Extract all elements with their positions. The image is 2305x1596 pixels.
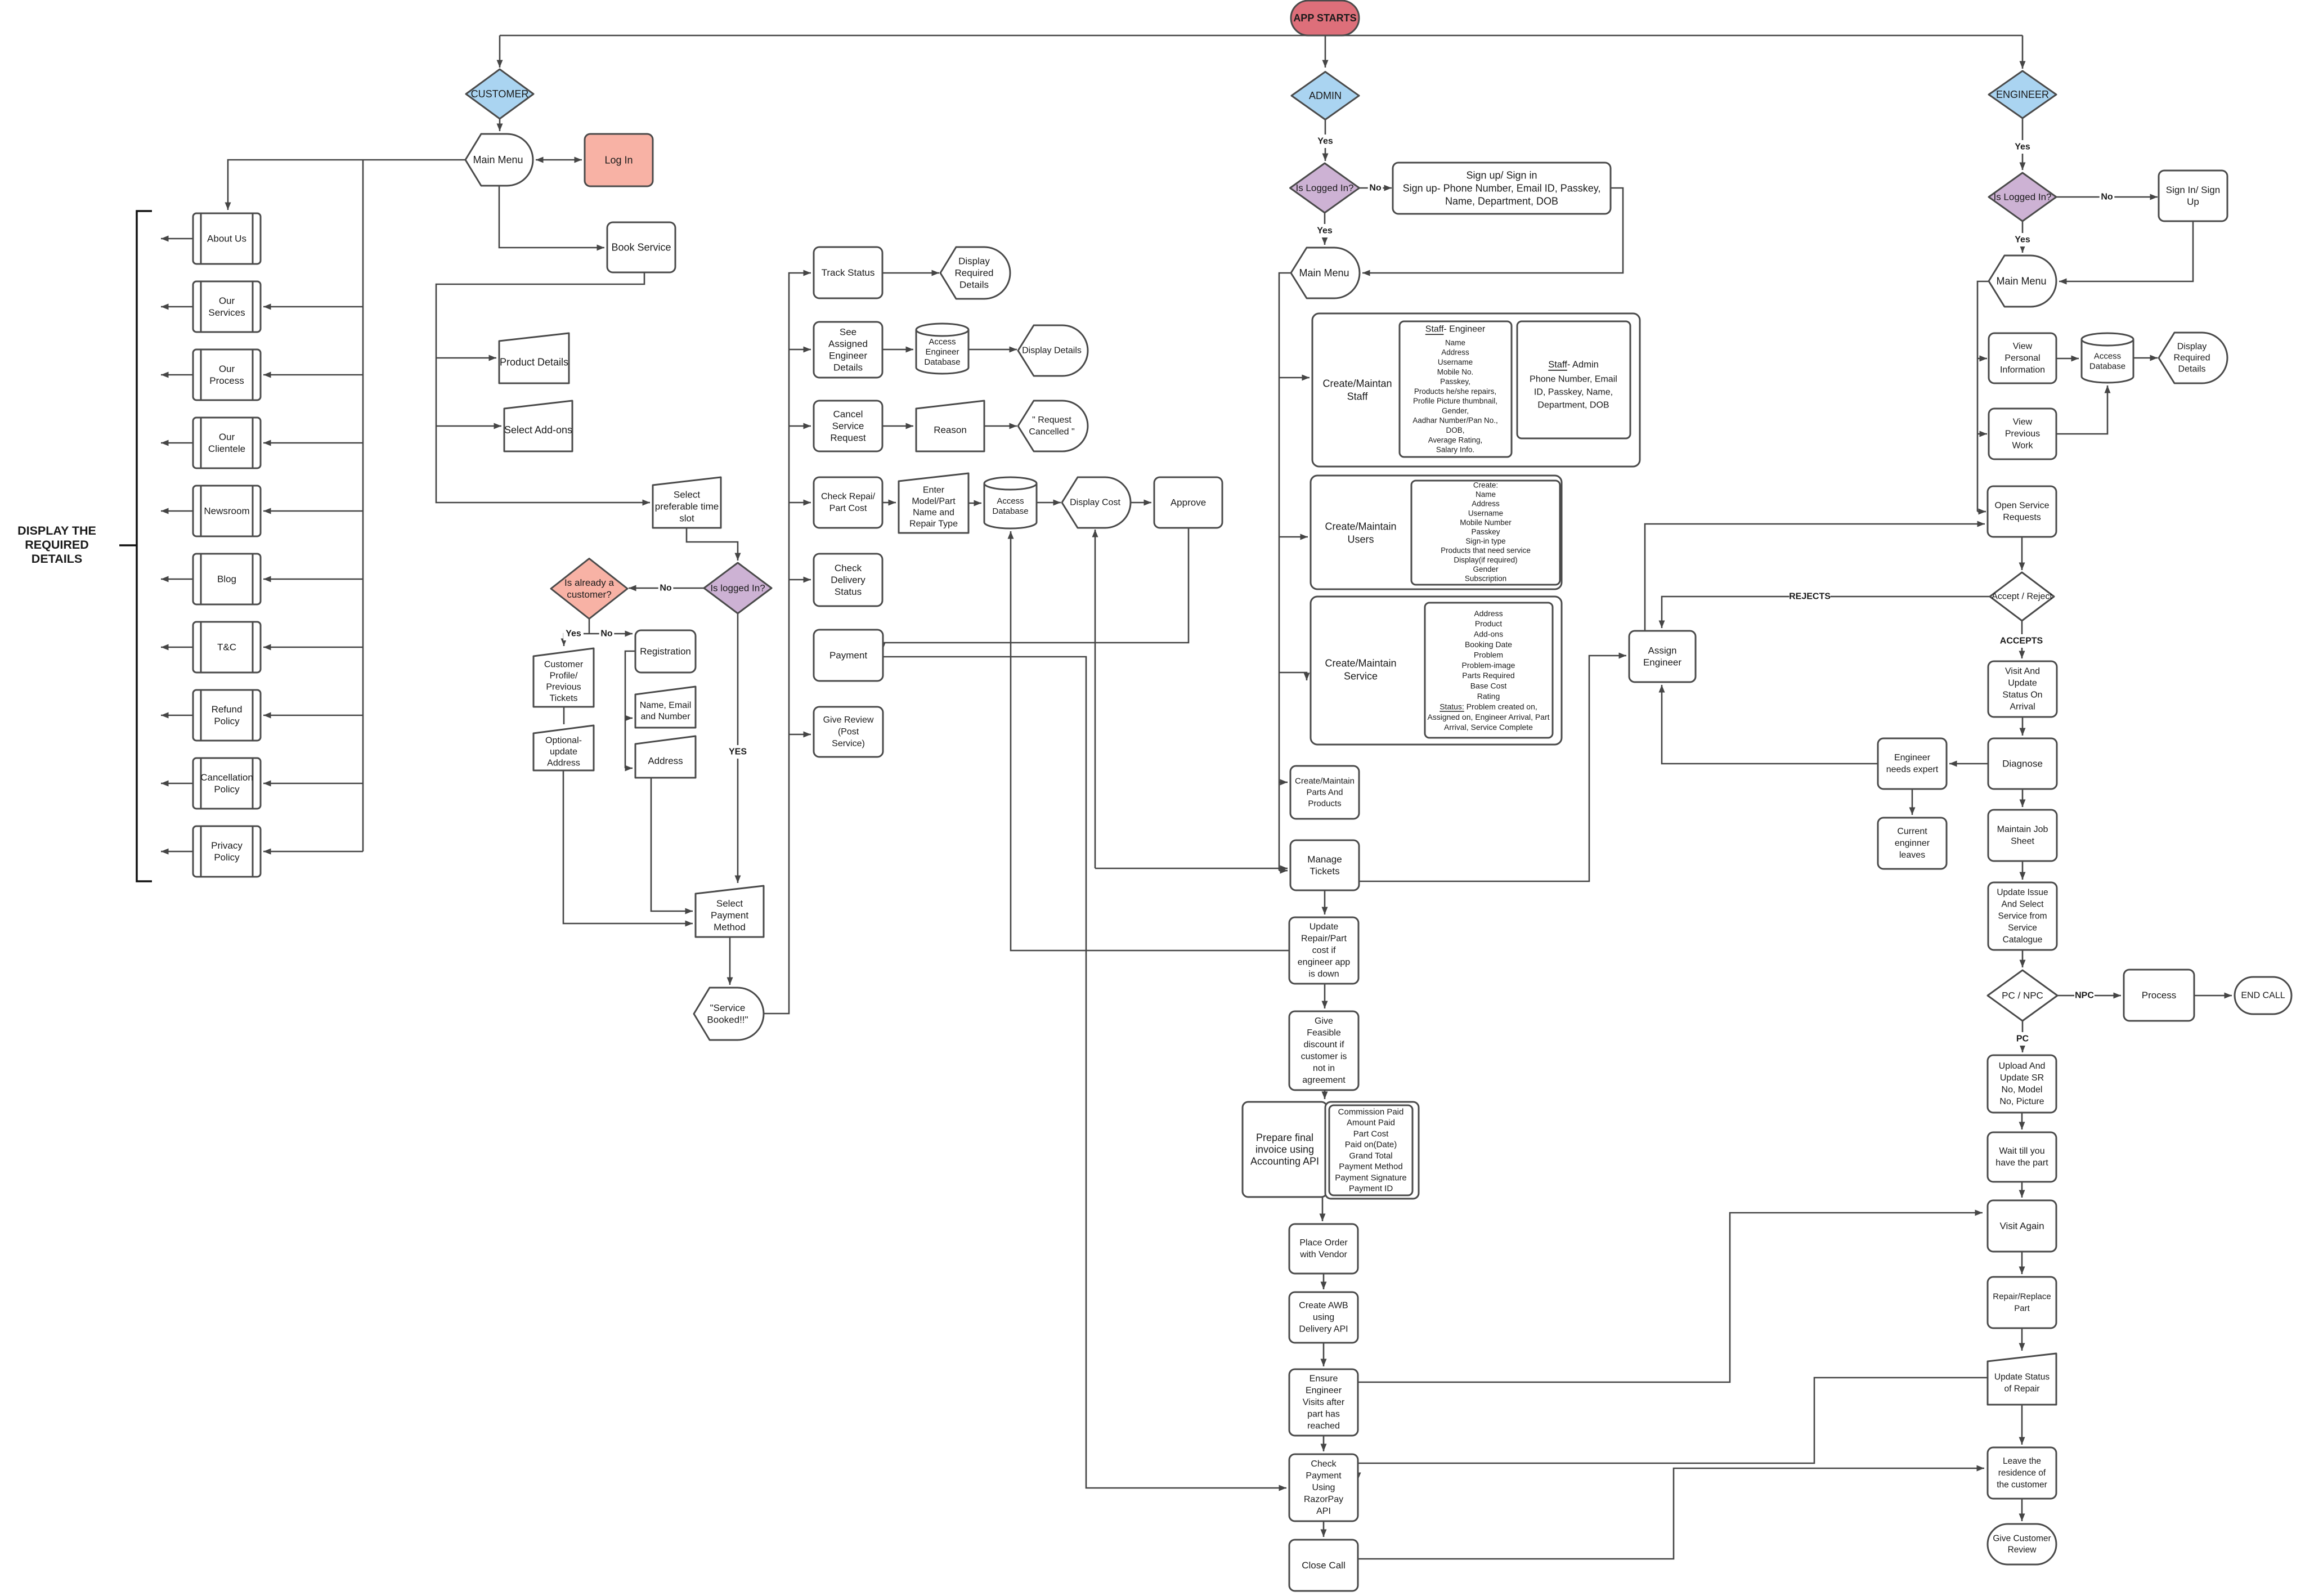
wire actions trunk to Check Delivery Status: [789, 579, 811, 581]
svg-text:Yes: Yes: [1317, 226, 1333, 236]
process Visit Again: [1988, 1200, 2056, 1252]
wire Visit Again to Repair/Replace Part: [2021, 1252, 2023, 1274]
wire Update Repair cost to Access Database: [1011, 531, 1289, 951]
process Open Service Requests: [1988, 486, 2056, 537]
wire Newsroom display out: [161, 510, 193, 512]
wire Check Payment to Close Call: [1323, 1521, 1325, 1537]
label Create/Maintan Staff: [1322, 378, 1392, 402]
manual-input Select Add-ons: [504, 401, 572, 451]
svg-text:Yes: Yes: [2015, 142, 2030, 152]
svg-text:Prepare finalinvoice usingAcco: Prepare finalinvoice usingAccounting API: [1250, 1132, 1319, 1167]
wire Close Call to Leave the residence: [1358, 1468, 1984, 1559]
database Access Database customer: [984, 477, 1037, 528]
display Main Menu engineer: [1989, 255, 2056, 307]
wire Privacy Policy display out: [161, 851, 193, 853]
wire admin menu trunk: [1279, 273, 1291, 871]
wire Check Repai to Enter Model/Part: [882, 502, 896, 504]
svg-text:Select Add-ons: Select Add-ons: [504, 424, 572, 436]
wire trunk to Blog: [263, 579, 363, 580]
svg-text:REJECTS: REJECTS: [1789, 592, 1831, 602]
svg-text:T&C: T&C: [217, 642, 236, 653]
wire View Personal Information to Access Database eng: [2056, 358, 2079, 360]
wire Diagnose to Maintain Job Sheet: [2022, 789, 2024, 807]
process Wait till you have the part: [1988, 1132, 2056, 1182]
wire APP STARTS to ADMIN: [1325, 35, 1326, 68]
wire Upload to Wait till part: [2021, 1113, 2023, 1129]
svg-text:Update IssueAnd SelectService: Update IssueAnd SelectService fromServic…: [1997, 888, 2048, 945]
wire Repair/Replace Part to Update Status of Repair: [2021, 1328, 2023, 1351]
label REJECTS: [1789, 590, 1831, 603]
process Current enginner leaves: [1878, 818, 1947, 869]
label DISPLAY THE REQUIRED DETAILS: [17, 524, 96, 566]
predefined-process Our Services: [193, 281, 261, 332]
display Service Booked: [694, 988, 764, 1040]
wire Engineer needs expert to Current enginner leaves: [1912, 789, 1913, 815]
process Registration: [635, 630, 696, 673]
wire Our Process display out: [161, 374, 193, 376]
process Manage Tickets: [1290, 840, 1359, 890]
manual-input Product Details: [499, 333, 569, 383]
display Main Menu admin: [1291, 248, 1360, 298]
svg-text:PC / NPC: PC / NPC: [2002, 990, 2043, 1001]
wire Open Service Requests to Accept/Reject: [2021, 537, 2023, 570]
manual-input Customer Profile/Previous Tickets: [533, 648, 594, 707]
wire Customer Profile to Optional-update Address: [563, 707, 565, 724]
svg-text:Main Menu: Main Menu: [1299, 267, 1349, 279]
svg-text:CheckDeliveryStatus: CheckDeliveryStatus: [831, 563, 866, 597]
manual-input Select Payment Method: [696, 886, 764, 937]
wire Manage Tickets to Update Repair cost: [1324, 890, 1326, 914]
svg-text:Staff- Admin: Staff- Admin: [1548, 360, 1599, 370]
wire Payment to Check Payment RazorPay: [883, 657, 1286, 1488]
wire Blog display out: [161, 579, 193, 580]
label ACCEPTS: [2000, 634, 2043, 648]
svg-text:Yes: Yes: [2015, 235, 2030, 245]
svg-text:Yes: Yes: [1317, 137, 1333, 146]
svg-text:No: No: [2101, 192, 2113, 202]
svg-text:Address: Address: [648, 756, 683, 766]
wire top rail to CUSTOMER: [499, 35, 501, 68]
note Invoice fields group: [1325, 1102, 1419, 1199]
predefined-process Our Process: [193, 349, 261, 400]
svg-text:ENGINEER: ENGINEER: [1996, 89, 2049, 100]
label Invoice attribute list: [1335, 1107, 1407, 1193]
predefined-process T&C: [193, 622, 261, 673]
predefined-process Refund Policy: [193, 690, 261, 741]
process Check Payment Using RazorPay API: [1289, 1454, 1358, 1521]
svg-text:END CALL: END CALL: [2241, 991, 2285, 1001]
wire time slot to Is logged In: [687, 528, 738, 561]
predefined-process Cancellation Policy: [193, 758, 261, 809]
wire Access Database eng to Display Required Details eng: [2133, 357, 2158, 359]
wire Registration connector: [625, 651, 635, 768]
process Log In: [585, 134, 653, 186]
svg-text:Is logged In?: Is logged In?: [710, 583, 765, 594]
label Staff- Engineer attribute list: [1412, 325, 1498, 454]
label No (admin logged): [1368, 181, 1383, 195]
wire Accept/Reject ACCEPTS to Visit And Update: [2021, 621, 2023, 658]
svg-text:DisplayRequiredDetails: DisplayRequiredDetails: [2174, 342, 2210, 374]
process Give Review (Post Service): [814, 707, 883, 757]
wire Is Logged In Yes to Main Menu admin: [1324, 213, 1326, 245]
wire trunk to Cancellation Policy: [263, 783, 363, 784]
process Visit And Update Status On Arrival: [1988, 661, 2057, 717]
wire customer info trunk: [362, 160, 364, 851]
wire Leave the residence to Give Customer Review: [2021, 1499, 2023, 1521]
wire Update Status of Repair to Check Payment: [1358, 1378, 1988, 1480]
svg-text:Product Details: Product Details: [500, 357, 568, 368]
process Create AWB using Delivery API: [1289, 1292, 1358, 1343]
svg-text:YES: YES: [729, 747, 747, 757]
process Assign Engineer: [1629, 631, 1696, 682]
wire Is logged In YES to Select Payment Method: [737, 613, 739, 883]
manual-input Reason: [916, 401, 984, 451]
svg-text:ACCEPTS: ACCEPTS: [2000, 636, 2043, 646]
svg-text:CUSTOMER: CUSTOMER: [471, 88, 529, 100]
process View Personal Information: [1989, 333, 2056, 383]
process Check Repai/Part Cost: [814, 477, 882, 528]
wire Address to Select Payment Method: [651, 778, 693, 911]
terminator END CALL: [2235, 977, 2291, 1014]
wire split Yes to Customer Profile: [564, 634, 589, 646]
label Yes (admin logged): [1315, 224, 1335, 237]
label Service attribute list: [1427, 609, 1549, 732]
wire Book Service to booking trunk: [436, 272, 650, 503]
wire connector to Name Email and Number: [625, 718, 633, 719]
bracket display details bracket: [137, 211, 152, 881]
wire ADMIN to Is Logged In: [1325, 119, 1326, 161]
wire trunk to Create/Maintain Parts: [1279, 782, 1288, 783]
svg-text:DisplayRequiredDetails: DisplayRequiredDetails: [955, 256, 994, 290]
process Update Issue And Select Service from Service Catalogue: [1988, 882, 2057, 950]
wire Process to END CALL: [2194, 995, 2232, 997]
wire Cancellation Policy display out: [161, 783, 193, 784]
svg-text:Close Call: Close Call: [1302, 1560, 1345, 1571]
wire Enter Model/Part to Access Database: [968, 503, 981, 504]
predefined-process Our Clientele: [193, 418, 261, 468]
wire Place Order to Create AWB: [1323, 1274, 1325, 1289]
wire engineer menu trunk: [1977, 281, 1989, 512]
svg-text:Diagnose: Diagnose: [2002, 759, 2043, 769]
wire Give Feasible discount to Prepare final invoice: [1324, 1090, 1326, 1099]
decision Is Logged In? engineer: [1989, 173, 2056, 221]
process See Assigned Engineer Details: [814, 322, 882, 378]
wire trunk to Create/Maintain Users: [1279, 536, 1308, 538]
label Create/Maintain Users: [1325, 521, 1396, 545]
process Approve: [1154, 477, 1222, 528]
database Access Database engineer: [2082, 333, 2133, 383]
process Cancel Service Request: [814, 401, 882, 451]
wire trunk to View Personal Information: [1977, 358, 1987, 360]
label Staff- Admin attribute list: [1530, 360, 1617, 410]
svg-text:Registration: Registration: [640, 646, 691, 657]
note Invoice fields inner: [1329, 1105, 1412, 1195]
svg-text:Reason: Reason: [934, 425, 967, 436]
svg-text:About Us: About Us: [207, 234, 246, 244]
process Diagnose: [1988, 738, 2057, 789]
wire Refund Policy display out: [161, 715, 193, 716]
label No (already customer): [599, 627, 615, 640]
wire Optional-update Address to Select Payment Method: [563, 770, 693, 923]
manual-input Enter Model/Part Name and Repair Type: [899, 473, 968, 533]
wire Cancel Service Request to Reason: [882, 425, 913, 427]
wire trunk to View Previous Work: [1977, 433, 1987, 435]
process Sign In/Sign Up: [2159, 171, 2227, 221]
process Check Delivery Status: [814, 554, 882, 606]
wire booking trunk to Product Details: [436, 357, 496, 359]
wire Is Logged In No to Sign up: [1359, 187, 1392, 189]
wire Update Repair cost to Give Feasible discount: [1324, 984, 1326, 1008]
wire Our Clientele display out: [161, 442, 193, 444]
wire trunk to Our Services: [263, 306, 363, 308]
wire PC/NPC PC to Upload And Update SR: [2022, 1021, 2024, 1052]
process Prepare final invoice using Accounting API: [1243, 1102, 1327, 1197]
wire Display Cost to Approve: [1131, 502, 1151, 504]
group Create/Maintain Service group: [1311, 597, 1562, 745]
wire Engineer needs expert to Assign Engineer: [1662, 685, 1878, 764]
label Yes (already customer): [563, 627, 584, 640]
predefined-process Newsroom: [193, 486, 261, 536]
note Staff- Admin attributes: [1517, 321, 1630, 438]
decision Is already a customer?: [551, 559, 627, 619]
wire trunk to Create/Maintan Staff: [1279, 377, 1310, 379]
wire Display Cost link to Manage Tickets: [1095, 868, 1288, 869]
wire Update Issue to PC/NPC: [2022, 950, 2024, 967]
decision PC / NPC: [1988, 970, 2057, 1021]
wire trunk to Open Service Requests: [1977, 511, 1986, 513]
svg-text:Phone Number, EmailID, Passkey: Phone Number, EmailID, Passkey, Name,Dep…: [1530, 375, 1617, 410]
process Sign up/Sign in: [1393, 163, 1611, 214]
terminator APP STARTS: [1291, 1, 1359, 35]
wire trunk to Our Clientele: [263, 442, 363, 444]
svg-text:No: No: [600, 629, 613, 639]
wire Is logged In No to Is already a customer: [629, 588, 704, 589]
wire Select Payment Method to Service Booked: [729, 937, 731, 985]
process Repair/Replace Part: [1988, 1277, 2056, 1328]
svg-text:AccessDatabase: AccessDatabase: [992, 496, 1028, 516]
database Access Engineer Database: [916, 324, 968, 374]
wire Assign Engineer to Open Service Requests: [1645, 524, 1985, 631]
svg-text:Leave theresidence ofthe custo: Leave theresidence ofthe customer: [1997, 1456, 2047, 1490]
decision CUSTOMER: [466, 69, 533, 119]
process Place Order with Vendor: [1289, 1224, 1358, 1274]
label Yes (engineer logged): [2012, 233, 2033, 246]
label Yes (ENGINEER): [2012, 140, 2033, 154]
decision Is Logged In? admin: [1290, 163, 1360, 213]
predefined-process About Us: [193, 213, 261, 264]
wire trunk to Our Process: [263, 374, 363, 376]
note Staff- Engineer attributes: [1400, 321, 1512, 457]
predefined-process Privacy Policy: [193, 826, 261, 877]
wire View Previous Work to Access Database eng: [2056, 385, 2107, 434]
wire Reason to Request Cancelled: [984, 425, 1017, 427]
svg-text:Optional-updateAddress: Optional-updateAddress: [545, 736, 582, 768]
svg-text:Payment: Payment: [829, 650, 867, 661]
wire top rail from CUSTOMER to ENGINEER: [500, 35, 2023, 37]
wire split No to Registration: [589, 633, 633, 635]
wire trunk to Refund Policy: [263, 715, 363, 716]
display Display Required Details customer: [940, 247, 1010, 299]
wire Is Logged In eng Yes to Main Menu eng: [2022, 221, 2024, 253]
svg-text:Log In: Log In: [604, 155, 633, 166]
wire Visit And Update to Diagnose: [2022, 717, 2024, 736]
wire Manage Tickets link to Display Cost: [1095, 530, 1096, 868]
wire Approve to Payment: [882, 528, 1189, 651]
wire Accept/Reject REJECTS to Assign Engineer: [1662, 597, 1990, 628]
wire Is already split: [589, 619, 590, 634]
svg-text:Currentenginnerleaves: Currentenginnerleaves: [1895, 827, 1930, 860]
svg-text:Main Menu: Main Menu: [1996, 276, 2046, 287]
wire Prepare final invoice to Place Order: [1322, 1197, 1324, 1221]
wire booking trunk to Select Add-ons: [436, 425, 501, 427]
wire Service Booked to actions trunk: [764, 273, 811, 1014]
process Engineer needs expert: [1878, 738, 1947, 789]
wire top rail to ENGINEER: [2022, 35, 2024, 69]
wire T&C display out: [161, 647, 193, 648]
label No (engineer logged): [2100, 190, 2115, 204]
label Users attribute list: [1441, 481, 1531, 583]
process Close Call: [1289, 1540, 1358, 1591]
manual-input Name, Email and Number: [635, 687, 696, 728]
terminator Give Customer Review: [1988, 1524, 2056, 1564]
label Yes (ADMIN): [1315, 135, 1335, 148]
process Ensure Engineer Visits after part has reached: [1289, 1369, 1358, 1436]
decision ENGINEER: [1989, 71, 2056, 118]
wire connector to Address: [625, 768, 633, 769]
wire actions trunk to Check Repai/Part Cost: [789, 502, 811, 504]
wire PC/NPC NPC to Process: [2057, 995, 2121, 997]
svg-text:Staff- Engineer: Staff- Engineer: [1425, 325, 1486, 334]
wire Diagnose to Engineer needs expert: [1949, 763, 1988, 765]
svg-text:ADMIN: ADMIN: [1309, 90, 1342, 101]
manual-input Optional-update Address: [533, 725, 594, 770]
decision ADMIN: [1291, 72, 1359, 120]
wire actions trunk to See Assigned Engineer Details: [789, 349, 811, 351]
svg-text:Visit Again: Visit Again: [1999, 1221, 2044, 1231]
process Upload And Update SR No, Model No, Picture: [1988, 1055, 2056, 1113]
wire Update Status of Repair to Leave the residence: [2021, 1405, 2023, 1445]
label NPC: [2074, 989, 2095, 1002]
manual-input Update Status of Repair: [1988, 1353, 2056, 1405]
wire Track Status to Display Required Details: [882, 272, 939, 274]
process Maintain Job Sheet: [1988, 810, 2057, 861]
process Update Repair/Part cost if engineer app is down: [1289, 917, 1358, 984]
wire trunk to Privacy Policy: [263, 851, 363, 853]
svg-text:Display Cost: Display Cost: [1070, 498, 1120, 508]
decision Is logged In?: [704, 563, 772, 613]
process Create/Maintain Parts And Products: [1290, 766, 1359, 819]
wire Wait till part to Visit Again: [2021, 1182, 2023, 1198]
svg-text:Approve: Approve: [1171, 497, 1206, 508]
svg-text:NPC: NPC: [2075, 991, 2094, 1001]
wire trunk to Create/Maintain Service: [1279, 673, 1307, 680]
svg-text:APP STARTS: APP STARTS: [1293, 12, 1356, 24]
label PC: [2015, 1032, 2030, 1046]
wire trunk to Newsroom: [263, 510, 363, 512]
wire Create AWB to Ensure Engineer Visits: [1323, 1343, 1325, 1366]
svg-text:Accept / Reject: Accept / Reject: [1992, 592, 2052, 602]
wire CUSTOMER to Main Menu: [499, 119, 501, 131]
wire ENGINEER to Is Logged In eng: [2022, 118, 2024, 170]
wire Ensure Engineer Visits to Visit Again: [1358, 1213, 1983, 1382]
process View Previous Work: [1989, 409, 2056, 459]
wire Access Database to Display Cost: [1037, 502, 1061, 504]
process Book Service: [607, 222, 675, 272]
wire About Us display out: [161, 238, 193, 240]
display Display Cost: [1062, 477, 1131, 528]
wire Access Engineer Database to Display Details: [968, 349, 1017, 351]
svg-text:Yes: Yes: [566, 629, 581, 639]
svg-text:Main Menu: Main Menu: [473, 154, 523, 165]
decision Accept / Reject: [1990, 572, 2054, 621]
svg-text:Is Logged In?: Is Logged In?: [1295, 183, 1353, 194]
group Create/Maintain Users group: [1311, 476, 1562, 589]
wire Our Services display out: [161, 306, 193, 308]
display Request Cancelled: [1018, 401, 1088, 451]
label No (customer logged): [658, 581, 674, 595]
wire See Assigned to Access Engineer Database: [882, 349, 913, 351]
label Create/Maintain Service: [1325, 658, 1396, 682]
wire Ensure Engineer Visits to Check Payment: [1323, 1436, 1325, 1451]
wire Main Menu to Log In (both ways): [536, 159, 582, 161]
wire Sign In/Sign Up to Main Menu eng: [2059, 221, 2193, 281]
svg-text:Is Logged In?: Is Logged In?: [1993, 192, 2051, 203]
svg-text:AccessDatabase: AccessDatabase: [2089, 352, 2125, 371]
wire trunk to Manage Tickets: [1279, 870, 1288, 872]
svg-text:AccessEngineerDatabase: AccessEngineerDatabase: [924, 337, 960, 367]
wire actions trunk to Give Review: [789, 734, 811, 736]
wire Main Menu to About Us: [228, 160, 465, 210]
svg-text:Blog: Blog: [217, 574, 236, 585]
predefined-process Blog: [193, 554, 261, 604]
display Display Details: [1018, 325, 1088, 376]
svg-text:Process: Process: [2142, 990, 2176, 1001]
svg-text:CancelServiceRequest: CancelServiceRequest: [830, 409, 866, 443]
wire Manage Tickets to Assign Engineer: [1359, 656, 1626, 881]
process Track Status: [814, 247, 882, 298]
svg-text:PC: PC: [2016, 1034, 2029, 1044]
display Main Menu customer: [465, 134, 533, 186]
process Give Feasible discount if customer is not in agreement: [1289, 1011, 1358, 1090]
note Users attributes: [1411, 481, 1560, 585]
wire Main Menu to Book Service: [499, 186, 604, 248]
wire Sign up to Main Menu admin: [1362, 188, 1623, 273]
svg-text:Track Status: Track Status: [822, 267, 875, 278]
svg-text:Newsroom: Newsroom: [204, 506, 249, 517]
svg-text:No: No: [660, 584, 672, 593]
svg-text:No: No: [1369, 183, 1382, 193]
wire Maintain Job Sheet to Update Issue: [2022, 861, 2024, 880]
note Service attributes: [1425, 603, 1553, 738]
svg-text:Book Service: Book Service: [611, 242, 671, 253]
process Leave the residence of the customer: [1988, 1447, 2056, 1499]
display Display Required Details engineer: [2159, 333, 2227, 383]
label YES (customer logged): [728, 745, 748, 759]
process Process: [2124, 970, 2194, 1021]
manual-input Select preferable time slot: [653, 477, 721, 528]
wire trunk to T&C: [263, 647, 363, 648]
wire actions trunk to Cancel Service Request: [789, 425, 811, 427]
group Create/Maintan Staff group: [1312, 313, 1640, 467]
manual-input Address: [635, 736, 696, 778]
process Payment: [814, 630, 883, 681]
svg-text:Display Details: Display Details: [1022, 346, 1082, 356]
wire Is Logged In eng No to Sign In/Sign Up: [2056, 196, 2158, 198]
